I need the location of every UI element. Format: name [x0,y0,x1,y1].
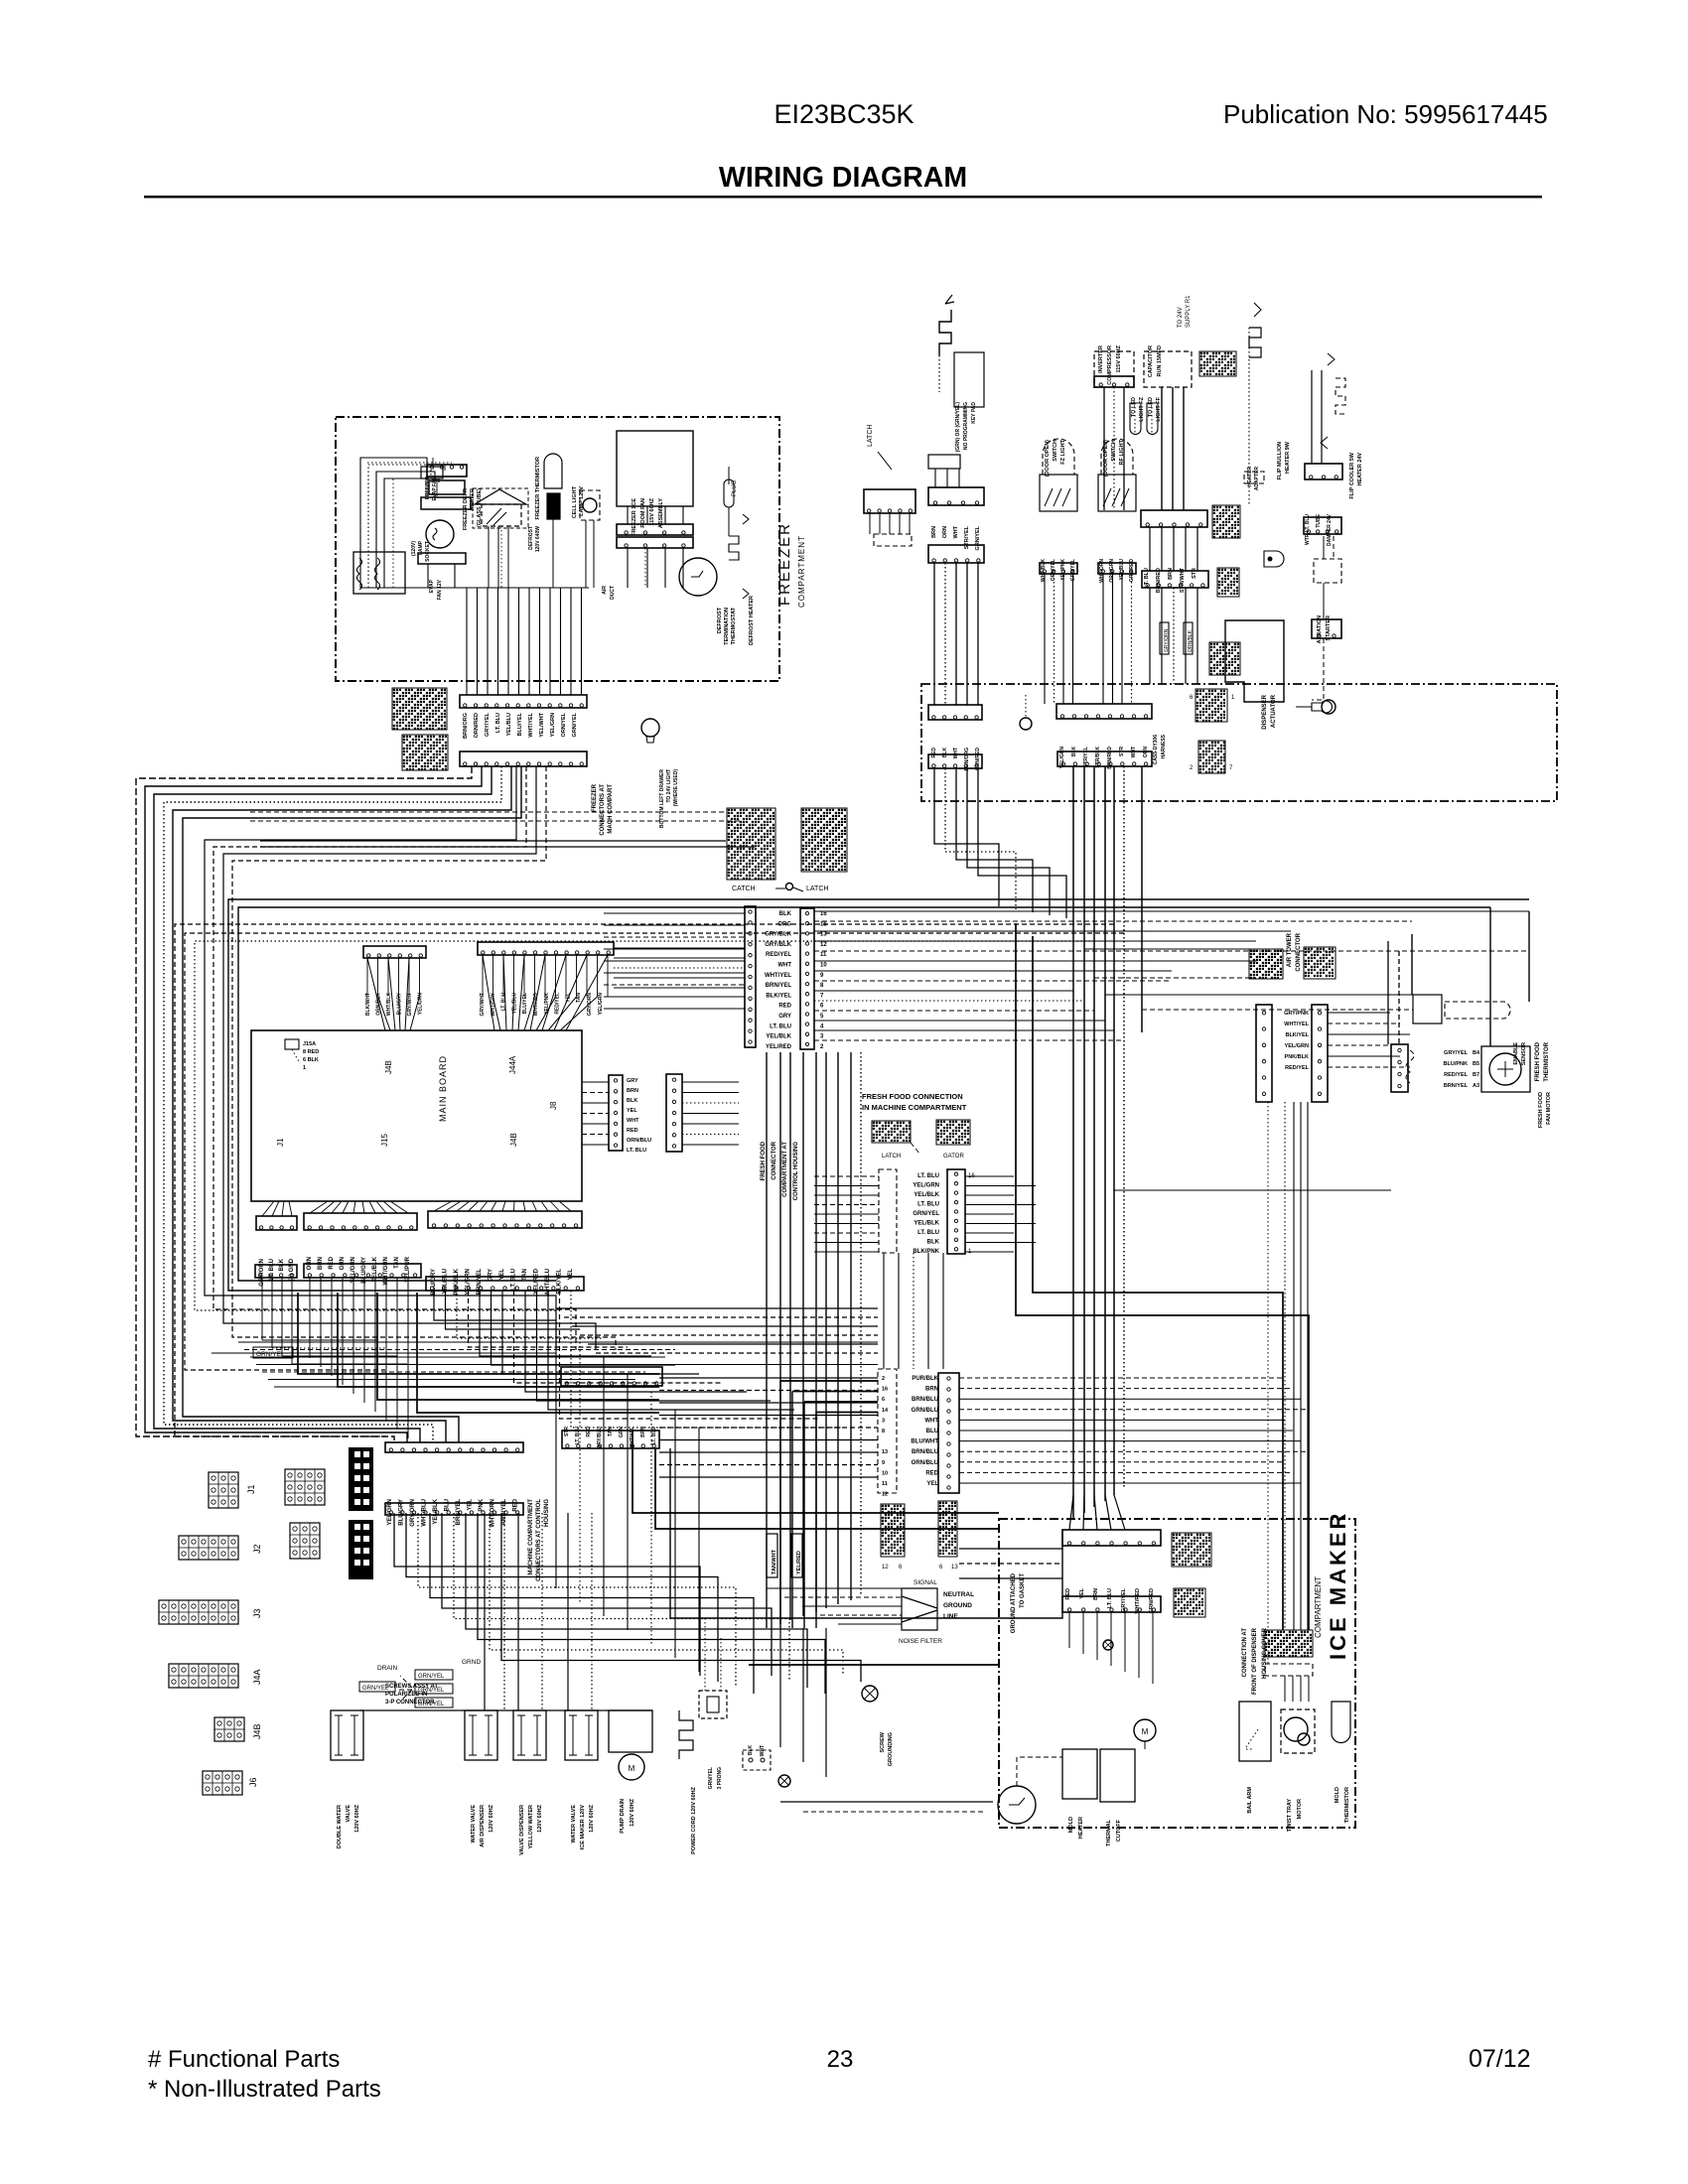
label ice room fan assembly [632,497,664,536]
wire bottom R drop 1 [446,1291,581,1329]
wire center bundle 0 [766,1052,768,1628]
wire bar-to-ff 6 [659,1451,878,1453]
ff door connector strip right [800,908,814,1049]
wire nest row 5 [268,1379,635,1381]
svg-text:(GRN) OR (GRN/YEL): (GRN) OR (GRN/YEL) [955,402,961,453]
bottom bar right lower [562,1431,659,1448]
wire bold run to icemaker B [655,1448,999,1529]
twist tray gear [1298,1733,1310,1745]
fz door hatch connector [1196,689,1227,722]
wire bar-to-ff 2 [659,1402,878,1404]
svg-text:CAS5-DY306: CAS5-DY306 [1153,735,1159,765]
wire left rail 0 [136,766,472,1442]
svg-text:YEL: YEL [627,1108,637,1114]
wire cross lower 3 [580,1334,878,1336]
wire machine ladder 5 [454,1513,789,1682]
wire into icemaker left 3 [959,1577,1062,1579]
wire board fan-out L3 [289,1201,292,1216]
wire ff-right run 3 [814,940,1256,942]
wire branch ff fan [1114,1189,1391,1191]
wire bottom L drop h 1 [272,1347,387,1349]
wire board fan-out L2 [282,1201,284,1216]
svg-text:ICE MAKER: ICE MAKER [1326,1511,1350,1660]
svg-text:CONNECTION AT: CONNECTION AT [1242,1628,1248,1678]
freezer fan plug wire 2 [444,465,446,471]
wire board fan-in A3 [399,996,401,1030]
compressor bar labels [1144,567,1197,593]
inline wire label YEL/RED [791,1534,802,1577]
svg-text:ICE MAKER 120V: ICE MAKER 120V [580,1805,586,1850]
wire B-to-ff 3 [614,977,745,979]
wire fz switch drop 0 [1044,574,1046,704]
wire long dashed run C [195,941,1094,1310]
wire freezer harness drop 6 [528,588,530,695]
rf switch connector [1098,563,1136,574]
ice maker mid bar [1062,1596,1161,1612]
freezer evaporator fan motor [426,520,454,548]
wire airtower out 3 [1328,1044,1390,1046]
wire machine ladder 6 [466,1513,807,1688]
svg-text:FRESH FOOD: FRESH FOOD [1535,1041,1541,1081]
board bottom connector L [256,1216,297,1230]
wire board fan-in B10 [554,955,587,1030]
thermal cutoff box [1100,1749,1135,1802]
svg-text:J4B: J4B [509,1133,518,1147]
board right strip labels [627,1078,651,1154]
aux hatch connector top right [1199,351,1236,376]
svg-text:DEFROST: DEFROST [528,526,534,550]
wire board fan-out M8 [383,1201,397,1213]
wire ice fan drop 0 [627,548,629,588]
double water valve coil left [335,1715,343,1755]
svg-text:J15: J15 [380,1134,389,1147]
svg-text:10: 10 [882,1470,888,1476]
svg-text:FZ LIGHT: FZ LIGHT [1060,439,1066,464]
wire right bundle 0 [1072,766,1074,1519]
svg-text:DAMPER 24V: DAMPER 24V [1327,513,1333,546]
double water valve label [337,1804,360,1848]
svg-text:SUPPLY R1: SUPPLY R1 [1186,295,1192,328]
svg-text:GRN/YEL: GRN/YEL [913,1211,939,1217]
wire power drop 2 [955,563,957,705]
svg-text:GRND: GRND [462,1659,481,1666]
svg-text:EVAP: EVAP [429,579,435,593]
wire bottom M drop 9 [407,1278,409,1438]
svg-text:YEL: YEL [568,1269,574,1281]
svg-text:AIR DISPENSER: AIR DISPENSER [480,1805,486,1847]
wire power drop 4 [977,563,979,705]
svg-text:BLU/YEL: BLU/YEL [517,712,523,736]
svg-text:MOTOR: MOTOR [1297,1799,1303,1819]
svg-text:YELLOW WATER: YELLOW WATER [528,1805,534,1849]
label to led lights [1131,396,1145,421]
wire cross lower 5 [596,1352,878,1354]
svg-text:DEFROST HEATER: DEFROST HEATER [749,596,755,645]
wire freezer harness drop 7 [539,588,541,695]
wire board fan-out M2 [332,1201,342,1213]
wire nest row 4 [262,1371,645,1373]
black connector block A [349,1447,373,1511]
freezer inner dotted 2 [392,478,394,588]
machine connector left labels [931,748,981,771]
wire ffcol1-to-col2 0 [883,1253,885,1369]
wire board fan-in B7 [536,997,556,1030]
wire board fan-out M1 [321,1201,335,1213]
damper connector bar [1304,517,1341,534]
wire freezer harness drop 4 [507,588,509,695]
board right strip 2 [666,1074,682,1152]
wire machine ladder 1 [406,1513,718,1682]
fuse label rect B [1184,622,1193,654]
recovery riser 1 [1311,370,1313,464]
svg-text:TO LED: TO LED [1148,397,1154,417]
svg-text:(DOOR OPEN): (DOOR OPEN) [1045,440,1051,477]
latch dashed connector [874,534,912,546]
svg-text:CONNECTORS AT CONTROL: CONNECTORS AT CONTROL [536,1499,542,1581]
board top connector A labels [365,992,424,1016]
wire latch drop 0 [869,513,871,534]
svg-text:DRAIN: DRAIN [377,1665,398,1672]
flip mullion dotted riser [1248,328,1250,506]
wire powerbox link 2 [958,469,960,487]
svg-text:FAN MOTOR: FAN MOTOR [1546,1092,1552,1125]
svg-text:THERMISTOR: THERMISTOR [1344,1787,1350,1823]
svg-text:TO 24V LIGHT: TO 24V LIGHT [666,769,672,803]
svg-text:BLK: BLK [942,748,948,758]
svg-text:STR: STR [1192,568,1197,579]
wire ice bar drop 3 [1110,1612,1112,1666]
latch hatch connector [801,808,847,872]
wire bundle to signal 1 [784,1596,902,1598]
ground lug right [1296,701,1332,713]
board bottom connector L2 [255,1265,297,1278]
freezer heater sub box [353,552,405,594]
svg-text:FRONT OF DISPENSER: FRONT OF DISPENSER [1252,1627,1258,1695]
wire center bundle 1 [779,1052,781,1624]
ff connector col2 right strip [938,1373,959,1493]
svg-text:STARTER: STARTER [1326,615,1332,641]
recovery meander dashed [1336,378,1345,414]
wire board stub B0 [482,955,484,997]
wire bus solid 1 [260,840,726,842]
fresh food hatch B [936,1120,970,1145]
svg-text:WHT/BLK: WHT/BLK [386,993,392,1016]
wire ff-right run 0 [814,910,1529,912]
supply pins [749,1758,753,1762]
wire machine to valve 5 [591,1513,593,1710]
machine compartment labels [387,1498,519,1527]
board bottom connector M [304,1213,417,1230]
svg-text:YEL/BLU: YEL/BLU [506,713,512,737]
wire right bundle 3 [1104,766,1106,1501]
svg-text:3-P CONNECTOR: 3-P CONNECTOR [385,1700,435,1706]
freezer dotted interior 2 [644,548,646,588]
wire powerbox link 1 [946,469,948,487]
wire lower continue 2 [603,1356,605,1616]
wire ffcol1 right 3 [965,1204,1036,1206]
wire compressor bar link 4 [1196,527,1198,571]
svg-text:WHT: WHT [924,1418,938,1424]
freezer ice room fan assembly [617,431,693,506]
wire board fan-in B0 [483,955,494,1030]
svg-text:LATCH: LATCH [806,886,828,892]
label machine compartment connectors [528,1499,550,1581]
wire rf switch drop 3 [1131,574,1133,704]
wire plug up [728,467,730,484]
wire center bundle 6 [837,1052,839,1604]
wire board stub B9 [576,955,578,997]
wire mid rail 2 [223,766,596,1350]
freezer harness horizontal collect [360,587,589,589]
ff connector col1 right strip [947,1169,965,1254]
svg-text:YEL: YEL [499,1269,505,1281]
wire ffcol1 left 6 [814,1232,879,1234]
svg-text:VALVE: VALVE [346,1805,352,1823]
wire B-to-ff 2 [614,967,745,969]
water valve dispenser label [519,1804,543,1854]
wire center bundle bottom h2 [803,1811,983,1813]
svg-text:RED: RED [931,748,937,758]
wire board fan-out R5 [492,1201,497,1211]
svg-text:MAIN BOARD: MAIN BOARD [438,1055,448,1122]
wire compressor to harness 4 [1196,588,1198,684]
wire ff-right run 10 [814,1010,1094,1012]
machine compartment bar upper [385,1442,523,1452]
water valve air coil right [485,1715,492,1755]
aeration starter bar [1312,619,1341,638]
svg-text:WATER VALVE: WATER VALVE [571,1805,577,1843]
water valve icemaker body [565,1710,598,1760]
fan motor resistor squiggle [433,528,437,540]
svg-text:YEL/GRN: YEL/GRN [418,993,424,1016]
wire board stub B12 [607,955,609,997]
ff evap fan box [1481,1046,1530,1092]
ff fan arcs [1406,1050,1414,1083]
board bottom connector M2 [304,1264,421,1278]
wire cross lower 2 [572,1325,878,1327]
svg-text:YEL/BLU: YEL/BLU [511,993,517,1015]
freezer light bulb symbol [641,719,659,737]
wire strip2 out 6 [682,1144,739,1146]
svg-text:POLARIZED IN: POLARIZED IN [385,1692,427,1698]
wire latch drop 3 [899,513,901,534]
svg-text:POWER CORD 120V 60HZ: POWER CORD 120V 60HZ [691,1786,697,1853]
svg-text:120V 60HZ: 120V 60HZ [537,1804,543,1832]
wire board fan-in B8 [542,955,566,1030]
signal labels [943,1591,974,1620]
freezer fan connector upper [617,524,693,535]
wire bundle-to-ffcol2 3 [816,1412,878,1414]
wire board stub A5 [419,958,421,996]
svg-text:120V 60HZ: 120V 60HZ [630,1798,635,1826]
label heater adapter [1247,467,1260,491]
svg-text:CATCH: CATCH [732,886,756,892]
wire board fan-in B3 [512,997,514,1030]
dispenser front dashed [1265,1664,1313,1676]
ground gasket hatch A [881,1504,905,1557]
svg-text:BRN: BRN [1093,1588,1099,1600]
svg-text:ADAPTER: ADAPTER [1254,467,1260,491]
wire ice bar drop 5 [1138,1612,1140,1678]
wire lower continue 1 [579,1338,581,1602]
wire ffcol1 right 7 [965,1242,1036,1244]
wire center bundle 5 [825,1052,827,1608]
freezer cell light lamp [583,498,597,512]
wire center bundle ext 0 [779,1628,781,1747]
svg-text:IN MACHINE COMPARTMENT: IN MACHINE COMPARTMENT [862,1103,967,1112]
power cord dotted riser [704,1618,706,1691]
wire strip2 out 5 [682,1134,739,1136]
wire bundle to signal 0 [767,1587,902,1589]
fz switch pin labels [1041,559,1076,582]
svg-text:RED/YEL: RED/YEL [1444,1072,1468,1078]
label cell light [572,485,585,518]
svg-text:PNK: PNK [479,1498,485,1511]
wire left rail 4 [173,766,511,1442]
freezer thermistor body [547,493,560,519]
wire ff-left run 0 [604,912,745,914]
wire icemaker dotted drop [1267,1102,1269,1664]
svg-text:A3: A3 [1473,1083,1479,1089]
svg-text:RED: RED [778,1004,791,1010]
wire ffcol1 left 4 [814,1213,879,1215]
wire board fan-out R11 [550,1201,560,1211]
label defrost termination [717,607,737,644]
wire strip2 out 0 [682,1081,739,1083]
svg-text:AIR TOWER: AIR TOWER [1287,932,1293,967]
svg-text:120V 640W: 120V 640W [535,526,541,552]
main control board [251,1030,582,1201]
dispenser actuator hatch [1209,642,1240,675]
svg-text:BLK/YEL: BLK/YEL [1285,1032,1309,1038]
wire bottom R drop 2 [457,1291,604,1338]
svg-text:HOUSING: HOUSING [544,1499,550,1527]
power small box [928,455,960,469]
svg-text:YEL/BLK: YEL/BLK [914,1192,939,1198]
wire bar-to-ff 4 [659,1427,878,1429]
svg-text:LT. BLU: LT. BLU [501,993,507,1012]
wire board to strip1 4 [582,1123,609,1125]
wire bottom M drop 1 [320,1278,322,1367]
wire board fan-in B4 [518,955,524,1030]
machine connector right upper [1056,704,1152,719]
wire ice bar drop 6 [1152,1612,1154,1684]
svg-text:GRN/YEL: GRN/YEL [572,712,578,737]
wire capacitor drop 1 [1172,387,1174,510]
svg-text:PUMP DRAIN: PUMP DRAIN [620,1799,626,1834]
wire branch airtower 3 [1094,977,1256,979]
svg-text:HEATER: HEATER [1078,1817,1084,1839]
wire bundle-to-ffcol2 stub 0 [779,1381,781,1628]
wire freezer loop 1 [368,465,431,588]
wire left rail 3 [164,766,501,1442]
wire board fan-out M6 [369,1201,375,1213]
wire compressor bar link 1 [1161,527,1163,571]
svg-text:J8: J8 [549,1101,558,1110]
double water valve coil right [351,1715,358,1755]
svg-text:CONTROL HOUSING: CONTROL HOUSING [793,1142,799,1201]
wire machine ladder 8 [490,1513,843,1676]
board bottom connector R [428,1211,582,1228]
wire ffcol1 right 2 [965,1194,1014,1196]
wire fz switch drop 3 [1072,574,1074,704]
svg-text:GRY/YEL: GRY/YEL [485,712,491,737]
freezer connector bar upper [460,695,587,708]
svg-text:GRY: GRY [778,1014,791,1020]
svg-text:BLK: BLK [748,1745,754,1756]
wire ff-right run 11 [814,1020,1105,1022]
air tower strip left [1256,1005,1272,1102]
svg-text:THERMAL: THERMAL [1106,1819,1112,1846]
wire right bundle 2 [1093,766,1095,1507]
svg-text:B7: B7 [1473,1072,1479,1078]
wire latch drop 2 [889,513,891,534]
svg-text:LAMP: LAMP [418,540,424,555]
svg-text:FREEZER THERMISTOR: FREEZER THERMISTOR [535,457,541,519]
ice maker dashed enclosure [999,1519,1355,1828]
svg-text:BLU/YEL: BLU/YEL [522,993,528,1014]
wire ff-right run 13 [814,1039,1124,1041]
ground gasket hatch B [938,1501,957,1557]
freezer fan plug [427,465,467,477]
timer contact [1009,1798,1025,1805]
label freezer defrost heater (glass tube) [463,488,483,530]
wire ffcol1-to-col2 3 [927,1253,929,1369]
svg-text:J4B: J4B [384,1060,393,1074]
grn-yel label box 2 [415,1684,453,1694]
grounding screw wire [1025,695,1027,718]
svg-text:DOUBLE WATER: DOUBLE WATER [337,1805,343,1848]
wire ff-left run 1 [604,924,745,926]
wire bar-to-ff 8 [659,1476,878,1478]
svg-text:120V 60HZ: 120V 60HZ [354,1804,360,1832]
svg-text:BLK/WHT: BLK/WHT [365,993,371,1016]
svg-text:LT. BLU: LT. BLU [575,1427,581,1445]
inline wire label TAN/WHT [767,1534,777,1577]
wire mid rail 1 [213,766,576,1350]
fresh food hatch A [872,1121,911,1143]
double water valve body [331,1710,363,1760]
freezer compartment dashed enclosure [336,417,779,681]
ff col2 labels [911,1376,938,1487]
wire ffcol1 right 1 [965,1185,1036,1187]
svg-text:NEUTRAL: NEUTRAL [943,1591,974,1598]
heater adapter dashed 2pin [1244,472,1264,483]
svg-text:RED/YEL: RED/YEL [766,952,791,958]
svg-text:SCREWS ASSY AT: SCREWS ASSY AT [385,1684,438,1690]
wire ffcol2 right 8 [959,1461,1285,1463]
svg-text:RED/YEL: RED/YEL [1285,1065,1309,1071]
wire ffcol1 right 4 [965,1213,1014,1215]
ice maker motor [1134,1719,1156,1741]
svg-text:RED: RED [1065,1588,1071,1600]
svg-text:COMPARTMENT: COMPARTMENT [797,535,806,608]
wire ice fan drop 3 [682,548,684,588]
wire ff-left run 4 [604,960,745,962]
meander arrows [743,514,749,599]
water valve icemaker label [571,1804,595,1849]
svg-text:FREEZER 1CE: FREEZER 1CE [632,498,637,536]
svg-text:8: 8 [882,1429,885,1434]
wire airtower out 2 [1328,1033,1410,1035]
wire strip2 out 4 [682,1123,739,1125]
wire ff-right run 2 [814,930,1291,932]
svg-text:GRN: GRN [619,1427,625,1438]
wire ffcol2 right 0 [959,1377,1285,1379]
wire long solid run E [238,907,614,1281]
svg-text:BRN/BLU: BRN/BLU [912,1449,938,1455]
svg-text:ORN/BLU: ORN/BLU [912,1460,938,1466]
